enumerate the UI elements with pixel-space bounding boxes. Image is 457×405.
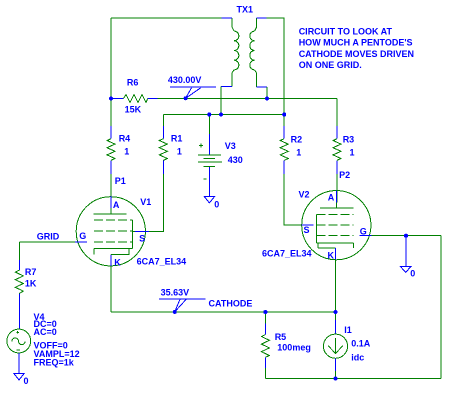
V2 grid g1 <box>317 235 354 237</box>
svg-text:0: 0 <box>24 376 29 386</box>
ground 0 (below V3) <box>204 197 219 210</box>
resistor R7 <box>15 260 37 329</box>
svg-text:I1: I1 <box>344 325 352 335</box>
svg-text:HOW MUCH A PENTODE'S: HOW MUCH A PENTODE'S <box>299 38 413 48</box>
V1 pin A tick <box>110 196 112 208</box>
net CATHODE <box>209 299 253 309</box>
svg-text:V3: V3 <box>225 141 236 151</box>
wire R3 bottom to V2 anode <box>336 174 338 202</box>
junction V2 cathode on cathode rail <box>334 310 338 314</box>
wire TX1 primary bottom to mid rail <box>220 87 222 115</box>
V1 pin G tick <box>75 241 87 243</box>
svg-text:1: 1 <box>350 148 355 158</box>
resistor R4 <box>107 126 130 174</box>
TX1 secondary pin stubs <box>257 18 267 87</box>
svg-text:0: 0 <box>214 199 219 209</box>
svg-text:CATHODE: CATHODE <box>209 299 253 309</box>
svg-text:S: S <box>304 225 310 235</box>
svg-text:R1: R1 <box>171 134 183 144</box>
wire R1 top lead <box>162 115 164 126</box>
wire 430V rail corner down to R3 <box>336 99 338 126</box>
wire TX1 secondary top to R2 column <box>266 18 284 126</box>
V1 internal rail <box>131 220 133 249</box>
svg-text:R6: R6 <box>127 78 139 88</box>
svg-text:1: 1 <box>296 148 301 158</box>
svg-text:0.1A: 0.1A <box>351 338 371 348</box>
svg-text:V1: V1 <box>140 197 151 207</box>
svg-text:V2: V2 <box>299 190 310 200</box>
svg-text:430.00V: 430.00V <box>168 75 202 85</box>
svg-text:K: K <box>328 250 335 260</box>
svg-text:ON ONE GRID.: ON ONE GRID. <box>299 60 362 70</box>
V1 grid g1 <box>94 241 133 243</box>
TX1 primary winding <box>232 18 239 87</box>
wire V1 cathode down <box>110 255 112 313</box>
source V4 <box>7 312 80 374</box>
svg-text:1: 1 <box>124 146 129 156</box>
svg-text:TX1: TX1 <box>237 5 254 15</box>
svg-text:CIRCUIT TO LOOK AT: CIRCUIT TO LOOK AT <box>299 27 393 37</box>
V2 pin K tick <box>335 248 337 260</box>
svg-text:G: G <box>360 227 367 237</box>
junction I1 on bottom rail <box>334 377 338 381</box>
V1 grid g2 <box>94 230 133 232</box>
V2 pin S tick <box>302 224 314 226</box>
svg-text:6CA7_EL34: 6CA7_EL34 <box>137 256 187 266</box>
battery V3 <box>198 115 243 197</box>
V2 grid g2 <box>317 224 354 226</box>
V2 internal rail <box>316 214 318 243</box>
resistor R1 <box>159 126 182 174</box>
svg-text:6CA7_EL34: 6CA7_EL34 <box>262 248 312 258</box>
wire GRID to V1 grid <box>19 241 76 243</box>
svg-text:0: 0 <box>410 269 415 279</box>
svg-text:G: G <box>79 231 86 241</box>
svg-text:A: A <box>113 200 120 210</box>
svg-text:K: K <box>114 257 121 267</box>
V1 envelope <box>76 197 145 266</box>
node P1 <box>115 176 126 186</box>
resistor R2 <box>280 126 302 174</box>
junction R5 top on cathode rail <box>263 310 267 314</box>
current source I1 <box>323 320 370 371</box>
junction ground tap on V2 grid wire <box>404 234 408 238</box>
wire 430V rail <box>158 98 338 100</box>
svg-text:R4: R4 <box>119 134 131 144</box>
V1 anode plate <box>94 208 127 214</box>
wire I1 bottom <box>335 371 337 378</box>
wire R5 bottom <box>264 368 266 378</box>
V2 anode plate <box>320 203 354 208</box>
svg-text:GRID: GRID <box>37 231 60 241</box>
resistor R5 <box>261 312 310 368</box>
wire left vertical (top rail to R4) <box>110 18 112 126</box>
wire R1 bottom to V1 screen <box>132 174 163 231</box>
svg-text:1: 1 <box>177 146 182 156</box>
ground 0 (below V4) <box>14 374 29 387</box>
V2 pin G tick <box>360 235 372 237</box>
net GRID <box>37 231 60 241</box>
svg-text:S: S <box>139 233 145 243</box>
voltage probe 35.63V <box>159 288 205 314</box>
V1 pin K tick <box>110 255 112 266</box>
svg-text:idc: idc <box>351 353 364 363</box>
pentode V1 <box>75 196 186 267</box>
resistor R6 <box>111 78 158 115</box>
svg-text:35.63V: 35.63V <box>161 288 190 298</box>
svg-text:FREQ=1k: FREQ=1k <box>34 357 75 367</box>
V2 grid g3 <box>317 213 354 215</box>
svg-text:A: A <box>328 192 335 202</box>
transformer TX1 <box>221 5 267 88</box>
V2 pin A tick <box>336 191 338 203</box>
svg-text:430: 430 <box>228 155 243 165</box>
wire right vertical <box>440 236 442 379</box>
wire top rail <box>111 17 222 19</box>
svg-text:AC=0: AC=0 <box>34 327 57 337</box>
svg-text:1K: 1K <box>25 278 37 288</box>
voltage probe 430.00V <box>168 75 216 100</box>
wire R4 bottom to V1 anode <box>110 174 112 214</box>
ground 0 (V2 grid) <box>400 236 415 279</box>
TX1 secondary winding <box>250 18 257 87</box>
svg-text:CATHODE MOVES DRIVEN: CATHODE MOVES DRIVEN <box>299 49 414 59</box>
wire mid rail (R1 top to R2 top) <box>163 114 284 116</box>
svg-text:P1: P1 <box>115 176 126 186</box>
svg-text:100meg: 100meg <box>277 343 311 353</box>
svg-text:R2: R2 <box>291 135 303 145</box>
wire R2 bottom to V2 screen <box>284 174 302 225</box>
wire GRID corner down to R7 <box>18 242 20 260</box>
svg-text:15K: 15K <box>125 105 142 115</box>
junction V3 top on mid rail <box>207 113 211 117</box>
wire TX1 secondary bottom to 430 rail <box>266 87 268 98</box>
junction R6 left <box>109 97 113 101</box>
junction TX1 secondary bottom on 430V rail <box>265 97 269 101</box>
junction TX1 primary bottom on mid rail <box>219 113 223 117</box>
pentode V2 <box>262 190 372 261</box>
resistor R3 <box>333 126 355 174</box>
wire V2 cathode down <box>335 248 337 312</box>
V2 cathode <box>317 243 354 248</box>
wire V2 cathode to I1 <box>335 312 337 320</box>
V2 envelope <box>302 191 371 260</box>
node P2 <box>339 170 350 180</box>
wire CATHODE rail <box>111 311 336 313</box>
TX1 primary pin stubs <box>221 18 232 87</box>
svg-text:R5: R5 <box>275 332 287 342</box>
svg-text:R3: R3 <box>343 135 355 145</box>
svg-text:R7: R7 <box>25 267 37 277</box>
wire V2 grid to right vertical <box>372 235 442 237</box>
V1 grid g3 <box>94 219 133 221</box>
svg-text:P2: P2 <box>339 170 350 180</box>
V1 pin S tick <box>135 230 149 232</box>
annotation text block <box>299 27 414 70</box>
wire bottom rail <box>265 378 441 380</box>
junction R2 column on mid rail <box>282 113 286 117</box>
V1 cathode <box>94 249 133 255</box>
